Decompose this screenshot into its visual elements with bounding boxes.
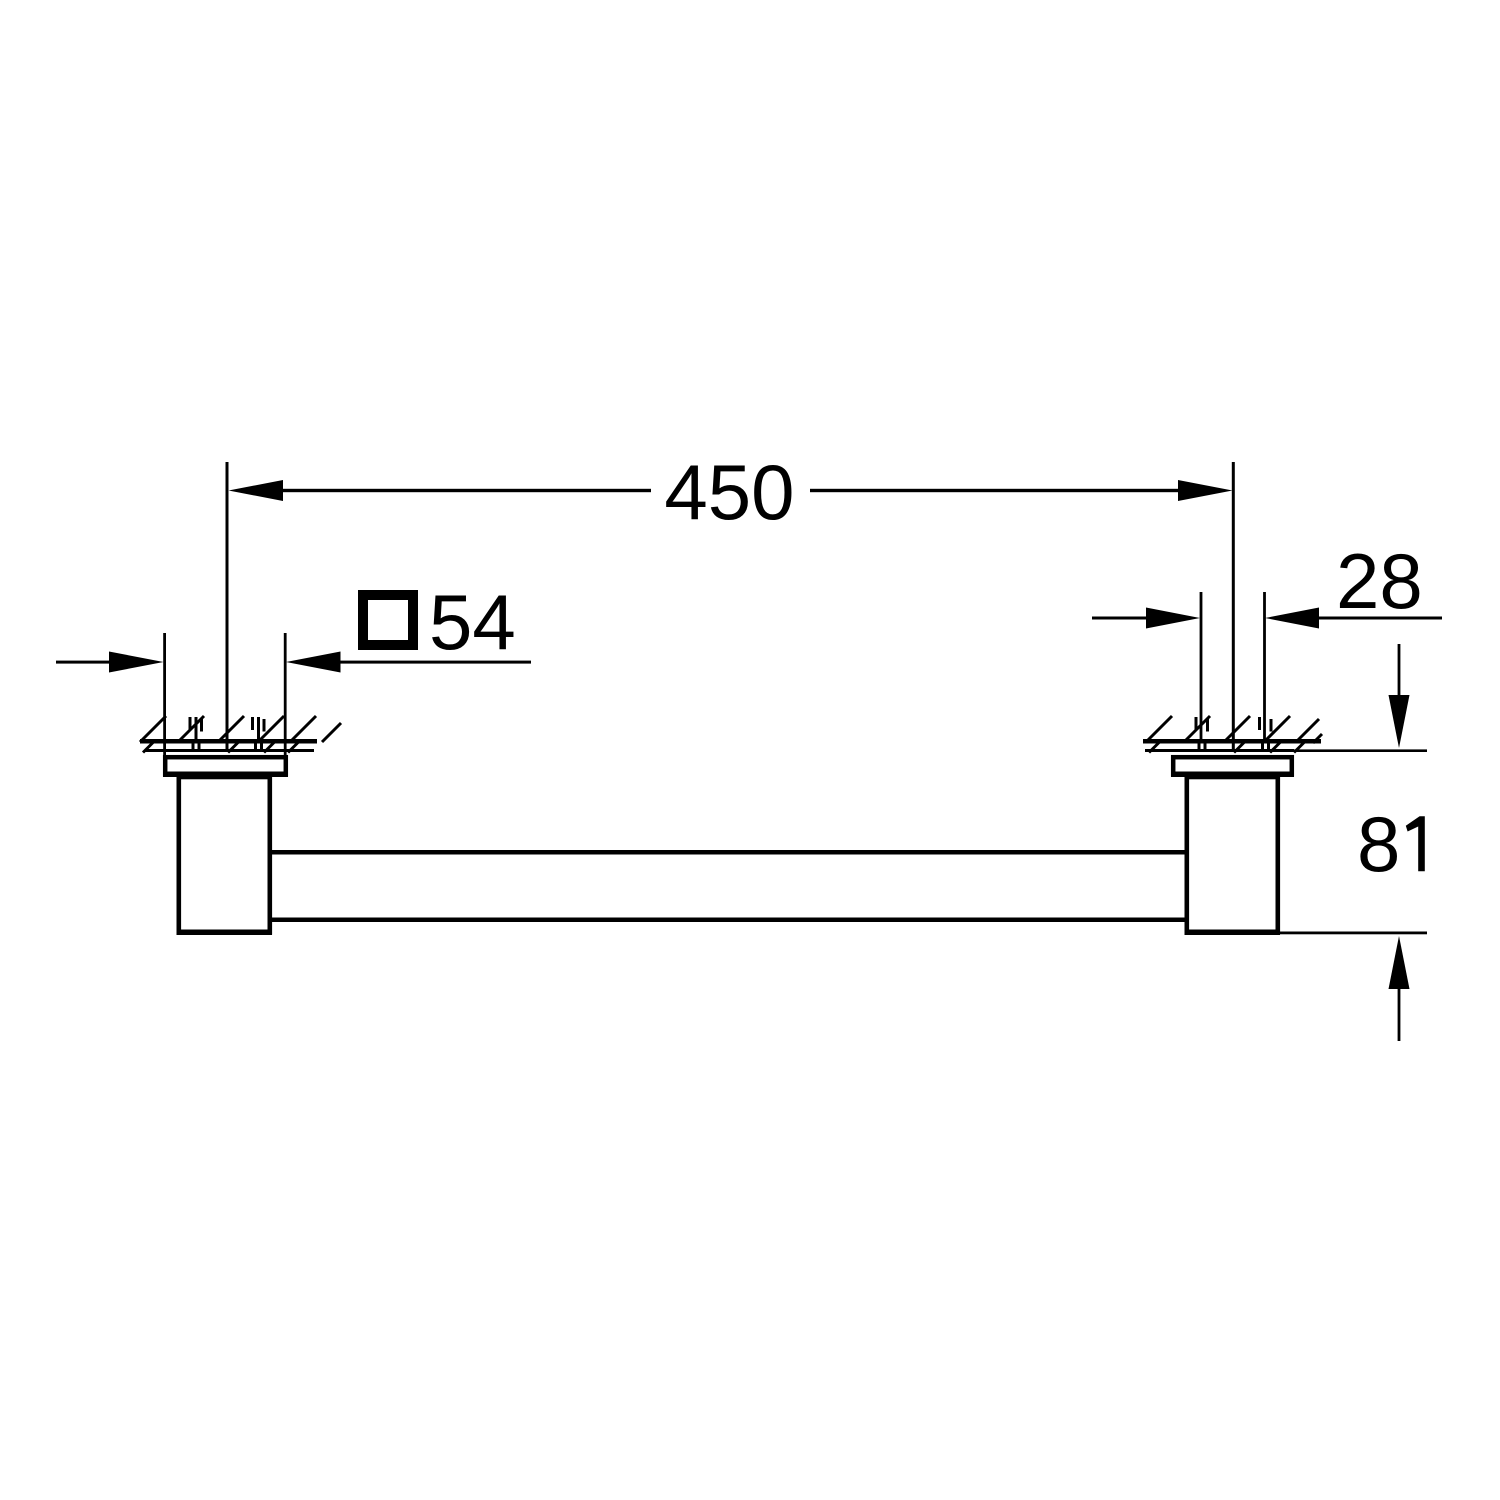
dimension 450 arrowhead right (points right at centerline) xyxy=(1178,480,1233,501)
81 down arrow shaft xyxy=(1398,644,1401,700)
left anchor symbol A xyxy=(189,717,204,750)
right post flange xyxy=(1173,757,1292,774)
right wall hatch diagonals xyxy=(1146,716,1322,743)
dimension 28 arrowhead right (points left) xyxy=(1265,608,1319,629)
right anchor symbol B xyxy=(1258,717,1273,750)
left anchor symbol B xyxy=(251,717,266,750)
dimension 54 arrowhead left (points right) xyxy=(109,652,164,673)
left post flange bottom thick line xyxy=(163,772,288,778)
dimension 450 line right segment xyxy=(810,489,1181,492)
centerline right post (450 dim extension) xyxy=(1232,462,1235,752)
81 down arrowhead xyxy=(1389,695,1410,748)
left wall line 1 xyxy=(140,739,317,744)
dimension 28 arrowhead left (points right) xyxy=(1146,608,1200,629)
bar top line xyxy=(272,850,1185,855)
svg-text:54: 54 xyxy=(429,578,516,666)
left post bottom thick line xyxy=(177,930,273,936)
dimension 28 tail line left xyxy=(1092,617,1148,620)
left wall hatch between-line diagonals xyxy=(143,742,299,753)
extension line 54 right xyxy=(284,633,287,755)
svg-text:28: 28 xyxy=(1336,537,1423,625)
81 bottom reference line xyxy=(1280,932,1427,935)
dimension 54 tail line left xyxy=(56,661,110,664)
bar bottom line xyxy=(272,918,1185,923)
right wall line 2 xyxy=(1145,749,1294,752)
svg-text:450: 450 xyxy=(664,448,794,536)
right post flange bottom thick line xyxy=(1171,772,1294,778)
dimension 54 label xyxy=(429,578,516,666)
square symbol for 54 xyxy=(363,595,413,645)
left post flange xyxy=(165,757,286,774)
right post bottom thick line xyxy=(1185,930,1281,936)
left wall hatch diagonals xyxy=(140,716,341,742)
dimension 450 arrowhead left (points left at centerline) xyxy=(229,480,284,501)
right wall line 1 xyxy=(1143,739,1321,744)
dimension 450 label xyxy=(664,448,794,536)
dimension 28 label xyxy=(1336,537,1423,625)
svg-text:8: 8 xyxy=(1357,800,1400,888)
dimension 28 tail line right xyxy=(1318,617,1442,620)
extension line 54 left xyxy=(163,633,166,755)
dimension 81 label xyxy=(1357,800,1425,888)
extension line 28 right xyxy=(1263,592,1266,741)
left wall line 2 xyxy=(145,749,314,752)
centerline left post (450 dim extension) xyxy=(226,462,229,752)
81 top reference line xyxy=(1294,749,1427,752)
dimension 450 line left segment xyxy=(280,489,651,492)
right post body xyxy=(1187,777,1278,932)
81 up arrow shaft xyxy=(1398,987,1401,1041)
right anchor symbol A xyxy=(1195,717,1210,750)
dimension 54 tail line right xyxy=(340,661,531,664)
dimension 54 arrowhead right (points left) xyxy=(286,652,341,673)
81 up arrowhead xyxy=(1389,936,1410,989)
extension line 28 left xyxy=(1200,592,1203,741)
right wall hatch between-line diagonals xyxy=(1149,742,1305,753)
left post body xyxy=(179,777,270,932)
